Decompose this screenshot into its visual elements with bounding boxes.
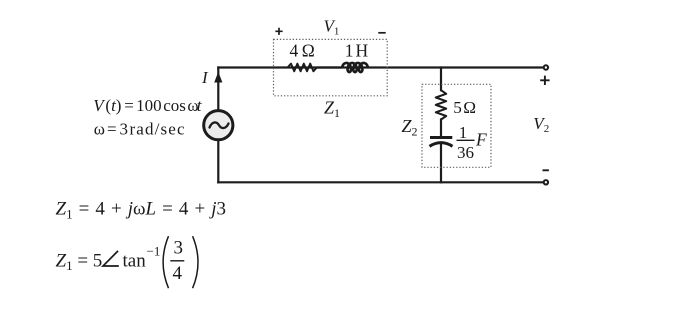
svg-text:ω=3rad/sec: ω=3rad/sec xyxy=(94,119,186,138)
svg-text:Z1 = 5: Z1 = 5 xyxy=(56,250,103,273)
svg-text:1H: 1H xyxy=(345,41,370,61)
svg-text:36: 36 xyxy=(457,143,474,162)
svg-text:4: 4 xyxy=(173,263,183,284)
svg-text:1: 1 xyxy=(459,123,468,142)
svg-text:tan: tan xyxy=(123,250,147,271)
svg-text:F: F xyxy=(475,129,487,149)
svg-text:4 Ω: 4 Ω xyxy=(290,41,315,61)
svg-text:Z1 = 4 + jωL = 4 + j3: Z1 = 4 + jωL = 4 + j3 xyxy=(56,199,227,222)
svg-text:5 Ω: 5 Ω xyxy=(453,98,476,117)
svg-text:3: 3 xyxy=(174,237,184,258)
svg-text:−1: −1 xyxy=(147,243,161,258)
